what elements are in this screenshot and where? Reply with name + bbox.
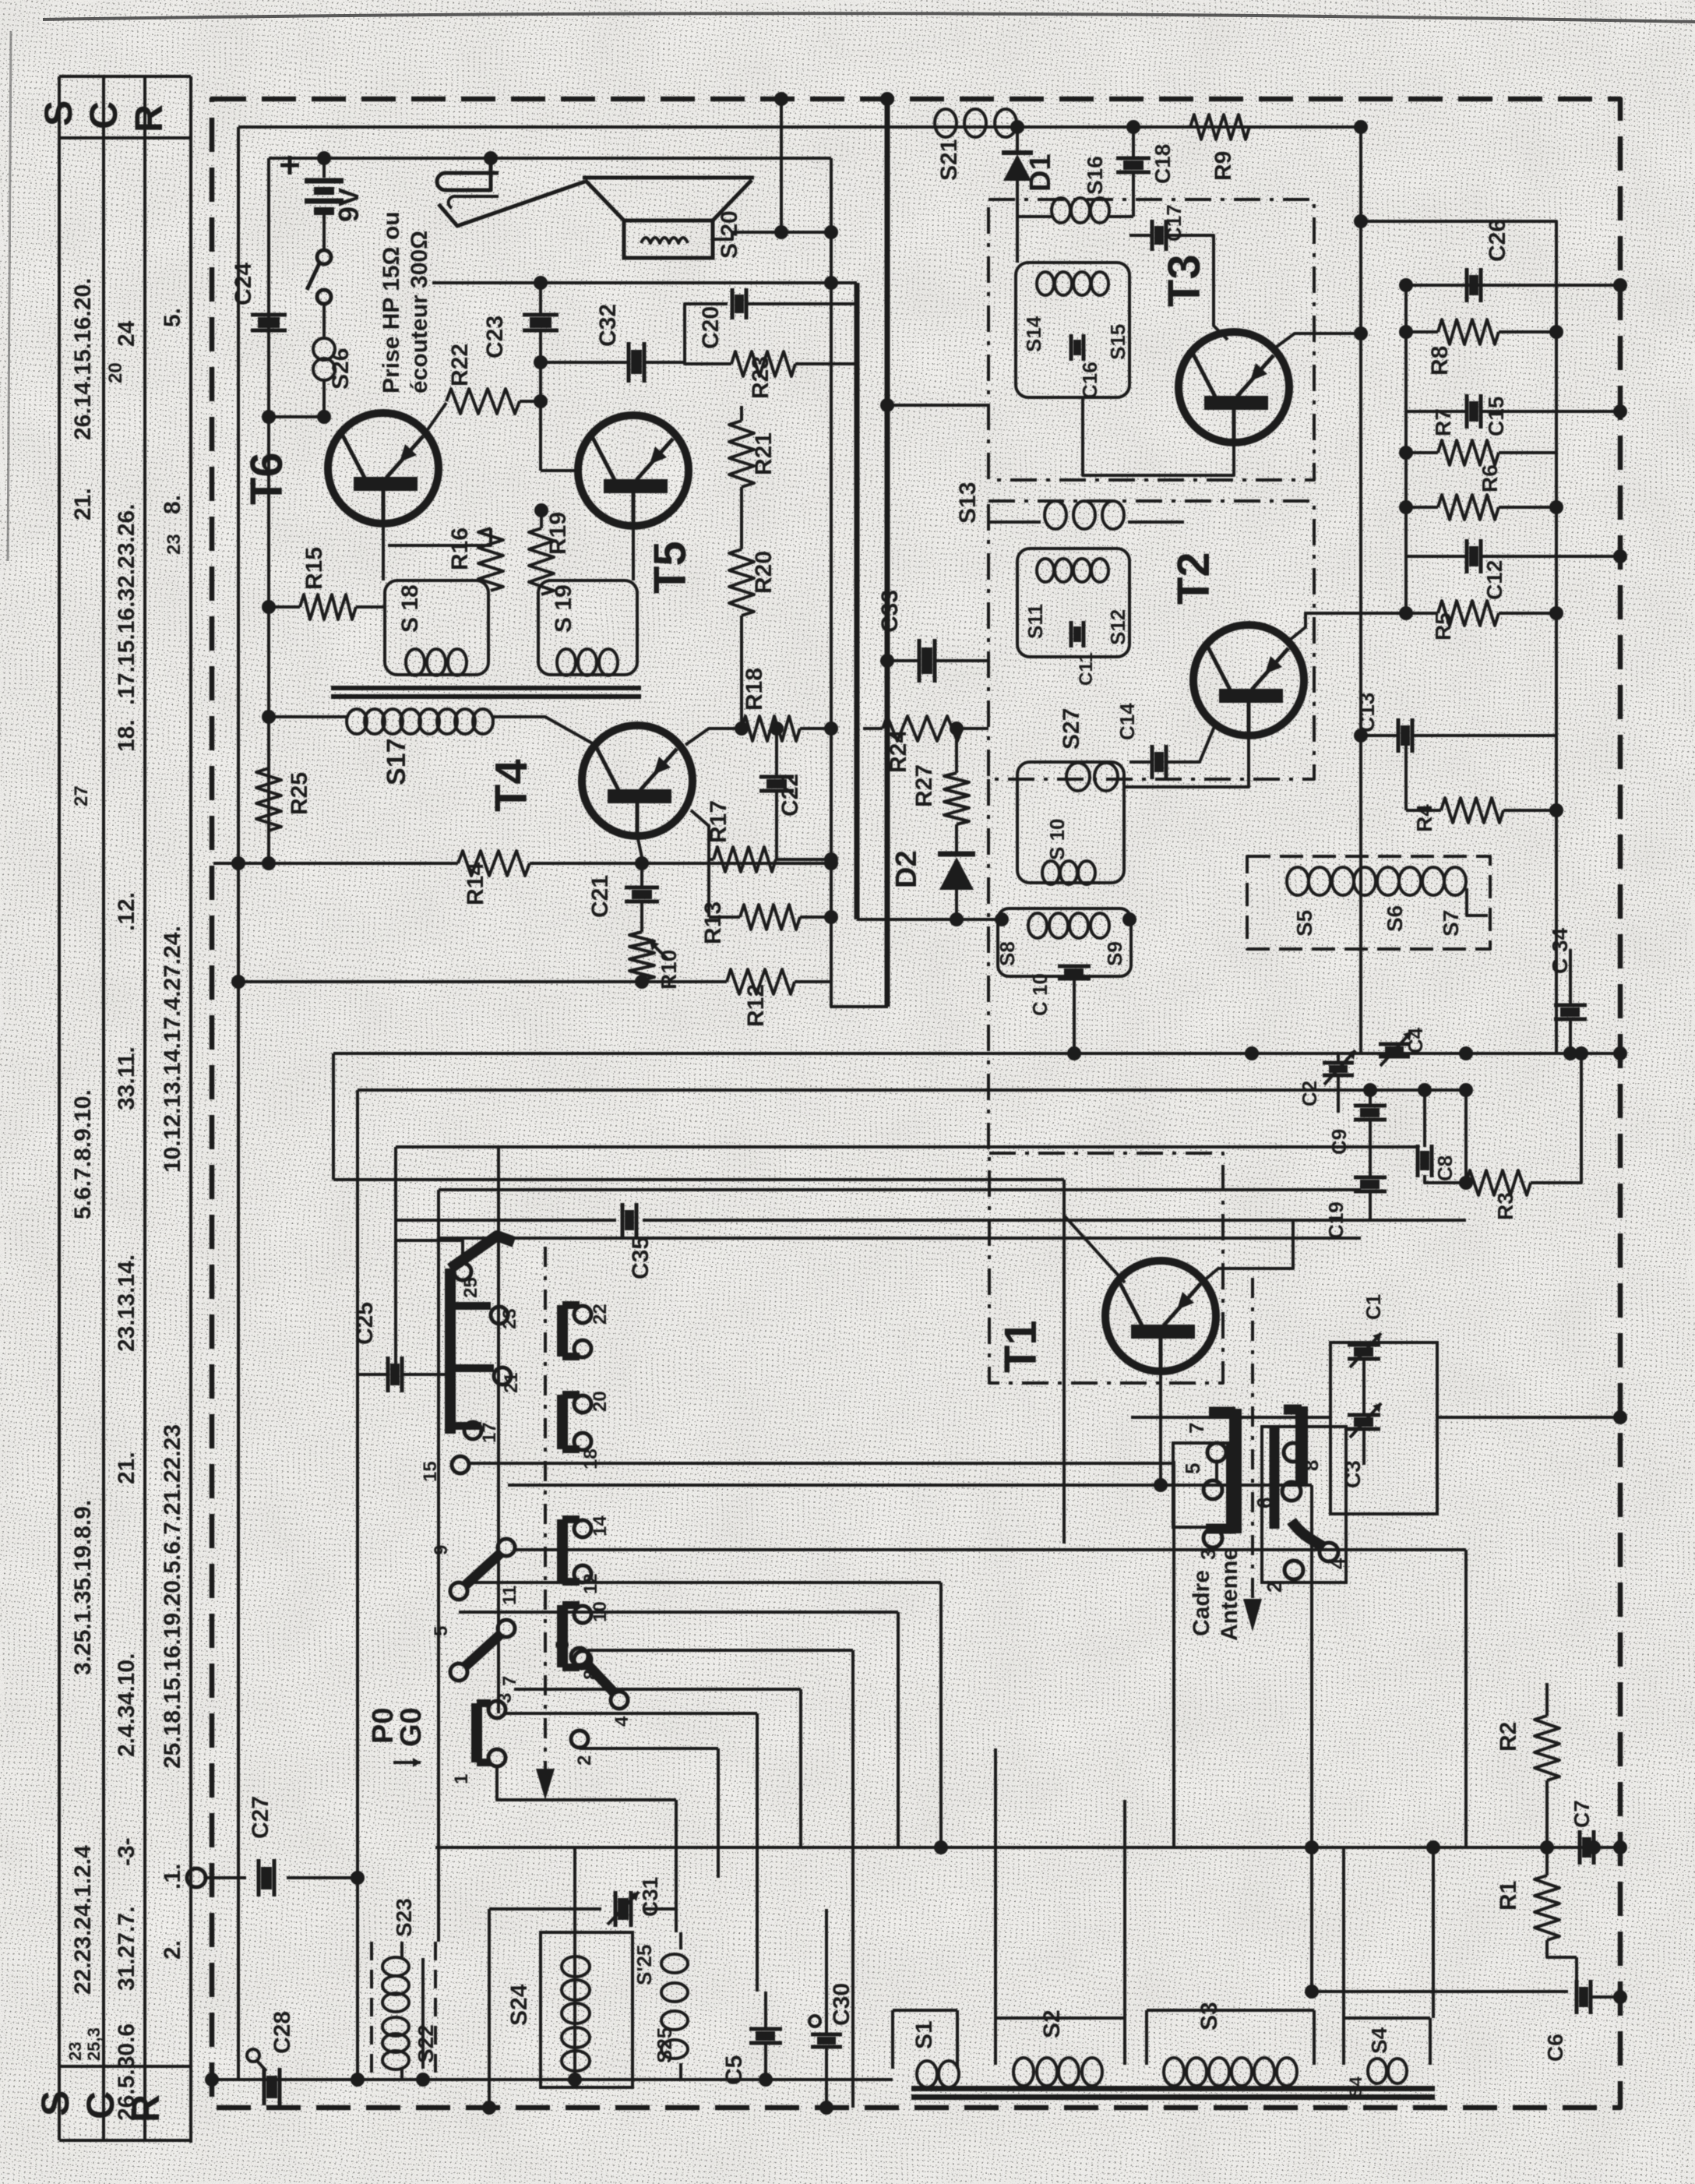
wire T1 collector: [1159, 1371, 1162, 1485]
wire comb h2069: [459, 1611, 898, 1614]
capacitor C30: [811, 2033, 842, 2037]
svg-text:T2: T2: [1168, 552, 1219, 605]
wire C12 row: [1406, 555, 1620, 558]
svg-text:R19: R19: [545, 512, 571, 555]
potentiometer R10: [629, 932, 654, 980]
svg-text:5: 5: [1181, 1463, 1204, 1474]
svg-text:31.27.7.: 31.27.7.: [114, 1907, 139, 1991]
svg-text:24: 24: [114, 320, 139, 347]
resistor R5: [1438, 601, 1499, 626]
capacitor C25: [386, 1357, 390, 1392]
svg-text:25.18.15.16.19.20.5.6.7.21.22.: 25.18.15.16.19.20.5.6.7.21.22.23: [160, 1424, 185, 1769]
svg-text:C20: C20: [698, 306, 724, 349]
svg-text:R22: R22: [447, 344, 473, 386]
capacitor C10: [1058, 965, 1091, 969]
capacitor C17: [1151, 220, 1154, 251]
resistor R21: [729, 421, 754, 487]
wire v868: [675, 1909, 678, 1932]
svg-text:C22: C22: [777, 774, 803, 817]
svg-text:.12.: .12.: [114, 892, 139, 931]
resistor R16: [478, 528, 503, 591]
svg-text:20: 20: [105, 362, 126, 383]
contact 2: [1284, 1561, 1303, 1579]
svg-text:T4: T4: [486, 759, 537, 812]
coil box S3: [1147, 2010, 1314, 2065]
node battery top: [317, 151, 331, 165]
wire T2 collector: [1124, 735, 1249, 787]
svg-text:27: 27: [71, 785, 92, 806]
svg-text:C7: C7: [1570, 1800, 1594, 1828]
trimmer C4: [1379, 1043, 1410, 1046]
wire T1 base: [1064, 1180, 1125, 1283]
svg-text:S17: S17: [382, 739, 411, 786]
wire right bus x1747: [1359, 127, 1362, 1053]
wire v1725: [1342, 1847, 1345, 2018]
antenna terminal: [187, 1868, 206, 1887]
svg-text:C28: C28: [270, 2011, 295, 2054]
IF can S11 S12: [1017, 549, 1129, 657]
svg-text:2.4.34.10.: 2.4.34.10.: [114, 1653, 139, 1757]
svg-text:9: 9: [431, 1545, 452, 1555]
wire R17 left: [691, 810, 714, 859]
svg-text:S6: S6: [1383, 905, 1407, 932]
IF can S14 S15: [1016, 263, 1129, 397]
capacitor C13: [1397, 718, 1401, 753]
svg-text:C5: C5: [721, 2055, 747, 2085]
wire T6 emitter to R22: [423, 403, 446, 436]
transistor T5: [578, 415, 689, 526]
wire comb h2244: [580, 1747, 718, 1750]
wire bus y1589: [439, 1237, 1361, 1240]
svg-text:S9: S9: [1103, 941, 1126, 966]
svg-text:S13: S13: [955, 482, 981, 524]
wire bus y2371: [435, 1846, 1620, 1849]
capacitor C24: [251, 313, 287, 317]
capacitor C18: [1116, 157, 1151, 161]
svg-text:6: 6: [1253, 1498, 1276, 1508]
switch axis T1: [1251, 1278, 1254, 1599]
wire bus y1108 right: [530, 862, 831, 865]
wire bus y1108: [213, 862, 458, 865]
switch lever 9 11: [450, 1582, 467, 1600]
contact frame right: [1262, 1427, 1346, 1582]
transformer core vertical B: [885, 99, 890, 1007]
svg-text:21.: 21.: [114, 1452, 139, 1484]
svg-text:22: 22: [590, 1304, 611, 1325]
wire C33: [887, 659, 988, 662]
wire gang row: [1131, 1416, 1330, 1419]
wire v738: [573, 1847, 576, 2080]
resistor R18: [742, 716, 800, 741]
wire comb v1507: [1172, 1461, 1175, 1847]
wire R23 right: [795, 362, 856, 365]
wire C6: [1577, 1957, 1620, 1997]
svg-text:R18: R18: [742, 668, 767, 711]
svg-text:S24: S24: [506, 1984, 532, 2026]
transistor T3: [1179, 332, 1289, 443]
coil S2: [1013, 2058, 1034, 2086]
wire C14: [1129, 725, 1215, 762]
svg-text:C23: C23: [482, 316, 508, 358]
wire comb v972: [756, 1713, 759, 1992]
wire antenna row: [206, 1876, 358, 1879]
wire R24: [863, 727, 988, 730]
wire C21: [640, 863, 643, 887]
svg-text:T1: T1: [996, 1320, 1046, 1373]
capacitor C12: [1465, 539, 1469, 573]
resistor R24: [883, 716, 962, 741]
wire S7 down: [1467, 888, 1488, 916]
wire C10 down: [1073, 979, 1076, 1053]
wire C25: [358, 1373, 450, 1376]
wire left bus: [237, 127, 240, 2080]
capacitor C28: [263, 2068, 266, 2105]
wire bus y1260: [238, 980, 727, 983]
svg-text:T6: T6: [241, 452, 292, 505]
svg-text:C31: C31: [638, 1877, 662, 1917]
capacitor C8: [1416, 1145, 1420, 1177]
svg-text:C12: C12: [1482, 560, 1506, 600]
coil S5S6S7: [1287, 867, 1309, 895]
svg-text:7: 7: [1185, 1423, 1208, 1434]
resistor R4: [1441, 798, 1503, 823]
transistor T2: [1193, 625, 1304, 736]
wire comb h2168: [514, 1688, 801, 1691]
svg-text:R2: R2: [1496, 1722, 1521, 1752]
wire T5 base: [541, 469, 580, 472]
svg-text:2: 2: [574, 1755, 595, 1766]
dashed schematic border: [212, 99, 1620, 2108]
wire bus y1399: [358, 1088, 1466, 1092]
svg-text:S2: S2: [1039, 2009, 1065, 2038]
svg-text:2.: 2.: [160, 1940, 185, 1960]
ferrite rod: [911, 2086, 1435, 2091]
wire C26 row: [1406, 284, 1620, 287]
svg-text:S23: S23: [392, 1898, 416, 1937]
coil S25: [661, 1954, 688, 1973]
svg-text:S3: S3: [1196, 2002, 1222, 2031]
svg-text:R12: R12: [743, 984, 769, 1027]
coil S10: [1042, 861, 1059, 884]
capacitor C34: [1554, 1004, 1587, 1007]
svg-text:R3: R3: [1493, 1192, 1517, 1220]
wire R22 to C23 node: [520, 400, 541, 403]
svg-text:C33: C33: [877, 590, 903, 633]
svg-text:.1.: .1.: [160, 1864, 185, 1889]
capacitor C6: [1575, 1980, 1579, 2014]
wire R27 top: [955, 729, 958, 773]
trimmer C2: [1323, 1061, 1354, 1065]
svg-text:C1: C1: [1362, 1294, 1385, 1320]
switch S26: [317, 250, 331, 264]
wire C32 row: [541, 361, 628, 364]
wire bottom bus: [212, 2078, 893, 2081]
resistor R23: [731, 351, 795, 376]
svg-text:S 19: S 19: [551, 584, 576, 633]
svg-text:S1: S1: [911, 2020, 937, 2049]
capacitor C27: [257, 1859, 261, 1896]
svg-text:26.5.30.6: 26.5.30.6: [114, 2023, 139, 2121]
speaker: [585, 180, 752, 221]
svg-text:D1: D1: [1024, 153, 1057, 192]
dashed box T1 link: [987, 779, 990, 1153]
svg-text:S12: S12: [1106, 609, 1129, 645]
wire R17 right: [776, 858, 831, 861]
svg-text:T3: T3: [1159, 254, 1210, 307]
svg-text:23: 23: [164, 534, 185, 555]
resistor R14: [458, 851, 530, 876]
capacitor C5: [749, 2027, 782, 2031]
svg-text:S: S: [37, 101, 80, 126]
switch lever 25: [445, 1268, 456, 1434]
svg-text:S 18: S 18: [397, 584, 423, 633]
resistor R1: [1535, 1875, 1559, 1940]
wire C23 column: [539, 283, 542, 316]
svg-text:S22: S22: [414, 2024, 438, 2063]
coil S18: [406, 649, 425, 676]
tuning gang box: [1330, 1343, 1437, 1514]
svg-text:S26: S26: [328, 348, 354, 390]
svg-text:S5: S5: [1292, 910, 1316, 937]
wire R20 bottom: [740, 616, 743, 729]
coil S8S9: [1028, 913, 1047, 938]
wire R16 top: [388, 528, 491, 545]
wire comb h2310: [505, 1798, 676, 1801]
resistor R8: [1438, 319, 1499, 344]
contact 23: [491, 1307, 508, 1324]
wire v1444: [1123, 1800, 1126, 2018]
oscillator coil box S5 S6 S7: [1247, 856, 1490, 949]
svg-text:20: 20: [590, 1391, 611, 1412]
wire R3: [1531, 1053, 1581, 1183]
wire v459 bottom: [356, 1878, 359, 2080]
band contact 7 5 3 bracket: [1229, 1409, 1242, 1533]
coil box S22 S23: [372, 1942, 435, 2080]
wire R2: [1545, 1683, 1549, 1716]
svg-text:S15: S15: [1106, 324, 1129, 360]
wire bus y1566 right: [643, 1219, 1466, 1222]
wire C18: [1132, 127, 1135, 157]
wire jack top to border: [780, 99, 783, 232]
wire v1278: [994, 1748, 997, 2018]
transistor T1: [1105, 1261, 1216, 1371]
svg-text:6: 6: [552, 1640, 573, 1650]
capacitor C15: [1465, 394, 1469, 429]
svg-text:S14: S14: [1022, 316, 1045, 352]
svg-text:R7: R7: [1431, 408, 1455, 436]
wire R23 row: [685, 327, 731, 364]
resistor R17: [714, 847, 776, 872]
svg-text:18: 18: [580, 1448, 601, 1470]
battery + sign: [280, 164, 299, 168]
coil S21: [935, 109, 957, 137]
switch lever 5 7: [450, 1664, 467, 1681]
svg-text:R23: R23: [748, 356, 773, 399]
wire C20 right: [748, 304, 856, 364]
switch lever 4: [1292, 1521, 1324, 1547]
wire C7 right: [1595, 1846, 1620, 1849]
svg-text:14: 14: [590, 1515, 611, 1537]
IF transformer S19 box: [538, 580, 637, 675]
jack spring contact: [439, 182, 585, 226]
wire contacts: [1215, 1462, 1218, 1480]
wire C32 right: [645, 304, 728, 362]
transformer core: [331, 686, 641, 690]
wire comb v1208: [939, 1582, 943, 1847]
transformer core vertical A: [855, 283, 860, 919]
wire R18 right: [800, 727, 831, 730]
coil S19: [557, 649, 576, 676]
svg-text:21: 21: [501, 1372, 522, 1393]
wire rail2: [269, 157, 831, 160]
svg-text:Cadre: Cadre: [1189, 1570, 1214, 1636]
wire T5 collector: [632, 525, 635, 580]
svg-text:5: 5: [431, 1626, 452, 1636]
wire R13: [709, 916, 831, 919]
battery 9V: [322, 158, 326, 178]
wire R7: [1406, 451, 1556, 454]
coil S16: [1017, 215, 1052, 218]
capacitor C23: [523, 313, 559, 317]
svg-text:15: 15: [420, 1461, 441, 1482]
svg-text:R6: R6: [1478, 464, 1502, 492]
svg-text:R13: R13: [700, 901, 726, 944]
wire bus y2556: [1312, 1990, 1568, 1993]
coil S24: [562, 1956, 590, 1977]
wire comb v1882: [1464, 1550, 1468, 1847]
jack Prise HP: [437, 158, 499, 190]
coil S22: [382, 2017, 409, 2036]
wire C15 row: [1406, 410, 1620, 413]
wire C31 row: [489, 1907, 676, 1911]
svg-text:Antenne: Antenne: [1217, 1547, 1242, 1641]
resistor R9: [1190, 115, 1249, 139]
wire bus y1527: [439, 1188, 1361, 1191]
svg-text:9V: 9V: [333, 188, 365, 222]
resistor R19: [529, 528, 554, 595]
wire R6: [1406, 506, 1556, 509]
svg-text:C18: C18: [1151, 144, 1175, 184]
wire trimmer links: [1337, 1053, 1340, 1063]
svg-text:23: 23: [499, 1308, 520, 1329]
wire bus y1514: [333, 1178, 1064, 1181]
coil box S2: [996, 2018, 1125, 2065]
svg-text:R: R: [127, 104, 171, 132]
wire C1 C3 col: [1362, 1360, 1366, 1414]
wire comb v1153: [897, 1612, 900, 1847]
svg-text:G0: G0: [395, 1707, 428, 1747]
diode D1: [1016, 127, 1019, 153]
svg-text:3: 3: [495, 1693, 516, 1703]
wire bus comb verticals: [332, 1053, 335, 1180]
switch lever 6 4 2: [571, 1648, 588, 1665]
resistor R25: [256, 768, 281, 831]
svg-text:R10: R10: [657, 950, 681, 990]
coil S26: [313, 338, 335, 360]
svg-text:C19: C19: [1324, 1201, 1348, 1239]
capacitor C14: [1151, 745, 1154, 779]
svg-text:C30: C30: [829, 1983, 855, 2026]
svg-text:S 20: S 20: [717, 210, 742, 259]
svg-text:R24: R24: [886, 730, 911, 773]
wire comb h2031: [467, 1581, 941, 1584]
resistor R20: [729, 549, 754, 616]
coil S27: [1066, 763, 1090, 791]
wire audio bus: [432, 281, 857, 284]
capacitor C26: [1465, 268, 1469, 302]
coil S17: [305, 715, 347, 718]
resistor R12: [727, 969, 795, 994]
svg-text:S'25: S'25: [633, 1945, 656, 1985]
svg-text:C 10: C 10: [1028, 973, 1052, 1016]
svg-text:Prise HP 15Ω ou: Prise HP 15Ω ou: [379, 211, 404, 393]
wire comb h1875: [469, 1462, 1174, 1465]
svg-text:C27: C27: [248, 1796, 273, 1839]
wire comb v1684: [1310, 1485, 1313, 1992]
svg-text:C6: C6: [1543, 2034, 1567, 2062]
wire R5: [1406, 612, 1556, 615]
coil box S1: [893, 2010, 957, 2069]
svg-text:3.25.1.35.19.8.9.: 3.25.1.35.19.8.9.: [70, 1500, 96, 1675]
svg-text:R25: R25: [287, 772, 312, 815]
wire R1: [1545, 1847, 1549, 1875]
wire comb v1095: [851, 1650, 855, 2108]
contact frame left: [1173, 1443, 1228, 1527]
wire R18 left: [685, 729, 742, 745]
svg-text:C3: C3: [1341, 1460, 1365, 1488]
wire C5: [764, 1992, 767, 2028]
variable capacitor C1: [1348, 1343, 1380, 1347]
resistor R2: [1535, 1716, 1559, 1780]
wire T3 emitter out: [1271, 333, 1361, 351]
svg-text:T5: T5: [645, 541, 696, 594]
svg-text:S 10: S 10: [1045, 819, 1069, 861]
capacitor C16: [1070, 334, 1073, 361]
IF can S27 S10: [1017, 762, 1124, 883]
wire R8: [1406, 330, 1556, 333]
svg-text:5.: 5.: [160, 308, 185, 327]
svg-text:8: 8: [1299, 1460, 1323, 1471]
resistor R3: [1466, 1170, 1531, 1195]
svg-text:23.13.14.: 23.13.14.: [114, 1254, 139, 1352]
resistor R22: [446, 389, 520, 414]
wire C34: [1569, 949, 1572, 1004]
wire R21: [740, 406, 743, 421]
svg-text:D2: D2: [890, 850, 923, 888]
wire comb h2118: [587, 1649, 853, 1652]
wire v1840: [1432, 1847, 1435, 2018]
wire R12 right: [795, 982, 888, 1007]
diode D2: [955, 824, 958, 856]
svg-text:C4: C4: [1404, 1027, 1427, 1053]
wire R19 top: [540, 510, 543, 528]
wire T3 collector: [1083, 397, 1234, 475]
svg-text:C16: C16: [1078, 362, 1101, 399]
svg-text:R4: R4: [1412, 804, 1436, 832]
wire top rail V+: [238, 125, 1361, 129]
wire R10 bottom: [640, 980, 643, 982]
coil S3: [1164, 2058, 1184, 2086]
IF dashed box T3: [988, 199, 1314, 480]
wire S16 down: [1016, 217, 1019, 263]
svg-text:R1: R1: [1496, 1881, 1521, 1911]
svg-text:R21: R21: [751, 432, 777, 475]
contact 17: [450, 1422, 481, 1430]
svg-text:R9: R9: [1210, 151, 1236, 181]
wire comb h2199: [505, 1712, 757, 1715]
svg-text:écouteur 300Ω: écouteur 300Ω: [407, 231, 432, 393]
variable capacitor C3: [1348, 1413, 1380, 1417]
